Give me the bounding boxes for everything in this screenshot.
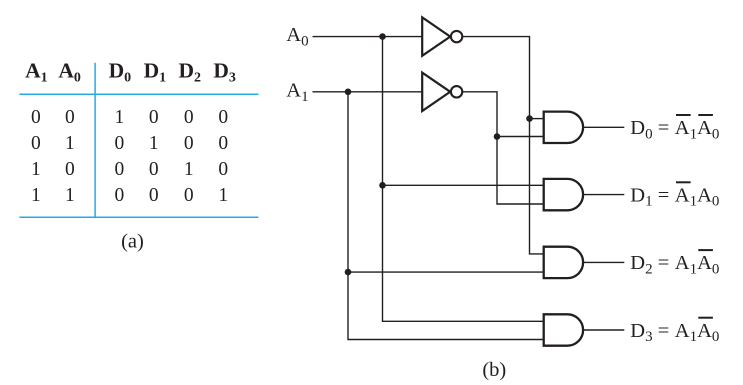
wire A1bar: inverter2 output right, down, into D1 bottom input — [463, 92, 544, 204]
svg-text:1: 1 — [31, 159, 41, 180]
junction dot A0 on input wire — [379, 33, 386, 40]
AND gate D3 — [544, 314, 583, 345]
AND gate D1 — [544, 179, 583, 210]
table row 1 — [31, 107, 228, 128]
inverter U2 (A1) triangle — [422, 73, 450, 111]
table vertical rule — [94, 63, 96, 218]
svg-text:1: 1 — [184, 159, 194, 180]
svg-text:(b): (b) — [482, 359, 506, 381]
svg-text:0: 0 — [184, 107, 194, 128]
wire A0 input — [313, 36, 423, 38]
svg-text:D1 = A1A0: D1 = A1A0 — [630, 184, 719, 209]
wire A0bar: inverter1 output right, down, into D2 top input — [463, 37, 544, 254]
wire A1 branch to D2 bottom input — [348, 271, 544, 273]
table top rule — [19, 93, 258, 95]
wire A0 vertical: down from A0 junction, into D3 top input — [383, 37, 544, 322]
svg-text:D3 = A1A0: D3 = A1A0 — [630, 320, 719, 345]
svg-text:1: 1 — [149, 133, 159, 154]
svg-text:1: 1 — [115, 107, 125, 128]
label D3 = A1 A0bar — [630, 317, 719, 345]
svg-text:0: 0 — [115, 185, 125, 206]
wire D2 output — [583, 261, 624, 263]
junction dot A1 at D2 bottom branch — [345, 269, 352, 276]
wire A0 branch to D1 top input — [383, 184, 544, 186]
svg-text:0: 0 — [149, 107, 159, 128]
label D2 = A1 A0bar — [630, 249, 719, 277]
svg-text:1: 1 — [65, 133, 75, 154]
AND gate D2 — [544, 247, 583, 278]
svg-text:0: 0 — [65, 159, 75, 180]
wire stub A0bar to D0 top input — [530, 118, 544, 120]
svg-text:0: 0 — [184, 133, 194, 154]
junction dot A0bar at D0 top input — [526, 115, 533, 122]
junction dot A0 at D1 top branch — [379, 182, 386, 189]
table row 3 — [31, 159, 228, 180]
wire A1 vertical: down from A1 junction, into D3 bottom input — [348, 92, 544, 340]
svg-text:D0 = A1A0: D0 = A1A0 — [630, 117, 719, 142]
svg-text:1: 1 — [65, 185, 75, 206]
label D1 = A1bar A0 — [630, 181, 719, 209]
label D0 = A1bar A0bar — [630, 114, 719, 142]
svg-text:0: 0 — [31, 107, 41, 128]
inverter U1 bubble — [451, 31, 462, 42]
table row 2 — [31, 133, 228, 154]
svg-text:D2 = A1A0: D2 = A1A0 — [630, 252, 719, 277]
svg-text:0: 0 — [149, 185, 159, 206]
svg-text:0: 0 — [149, 159, 159, 180]
svg-text:0: 0 — [115, 133, 125, 154]
table row 4 — [31, 185, 228, 206]
inverter U1 (A0) triangle — [422, 17, 450, 55]
table bottom rule — [19, 216, 258, 218]
svg-text:0: 0 — [218, 133, 228, 154]
inverter U2 bubble — [451, 86, 462, 97]
wire stub A1bar to D0 bottom input — [497, 136, 544, 138]
svg-text:1: 1 — [31, 185, 41, 206]
wire A1 input — [313, 91, 423, 93]
wire D1 output — [583, 194, 624, 196]
svg-text:0: 0 — [218, 107, 228, 128]
junction dot A1 on input wire — [345, 89, 352, 96]
svg-text:0: 0 — [184, 185, 194, 206]
junction dot A1bar at D0 bottom input — [494, 133, 501, 140]
svg-text:0: 0 — [31, 133, 41, 154]
svg-text:(a): (a) — [121, 231, 144, 253]
AND gate D0 — [544, 112, 583, 143]
wire D3 output — [583, 329, 624, 331]
svg-text:1: 1 — [218, 185, 228, 206]
svg-text:0: 0 — [65, 107, 75, 128]
wire D0 output — [583, 126, 624, 128]
svg-text:0: 0 — [218, 159, 228, 180]
svg-text:0: 0 — [115, 159, 125, 180]
